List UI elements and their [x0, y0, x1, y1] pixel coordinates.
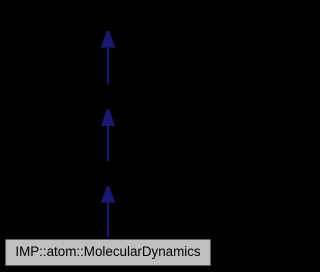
inheritance arrow A3 (bottom) : arrowhead — [101, 187, 115, 203]
class node label — [0, 245, 216, 258]
class node box — [5, 239, 212, 267]
inheritance arrow A1 (top) : arrowhead — [101, 31, 115, 47]
inheritance arrow A2 (middle) : stem — [107, 123, 109, 161]
inheritance arrow A1 (top) : stem — [107, 45, 109, 85]
inheritance arrow A3 (bottom) : stem — [107, 200, 109, 239]
inheritance arrow A2 (middle) : arrowhead — [101, 110, 115, 126]
